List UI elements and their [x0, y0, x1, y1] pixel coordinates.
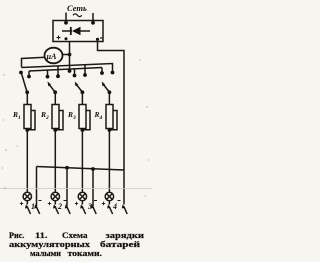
- wire R2 line2 contact stub: [47, 70, 49, 75]
- lamp HL3: [78, 192, 86, 200]
- svg-text:малыми: малыми: [30, 248, 61, 258]
- terminal arrow 4 minus: [122, 204, 128, 214]
- switch blade S2 with arrowhead: [48, 82, 56, 93]
- terminal arrow 4 plus: [107, 204, 113, 214]
- label plus terminal of rectifier: [57, 36, 61, 40]
- label plus output 4: [102, 202, 105, 205]
- label minus output 3: [94, 200, 97, 202]
- node meter stub junction: [68, 53, 72, 57]
- diode VD1 cathode line: [80, 30, 90, 32]
- wire bus line2 direct: [29, 68, 102, 72]
- paper crease line: [0, 188, 152, 190]
- wire lamp 1 tail: [26, 201, 28, 205]
- terminal arrow 1 minus: [34, 204, 40, 214]
- terminal arrow 3 minus: [91, 204, 97, 214]
- node line2 left end contact dot R1: [27, 71, 31, 78]
- svg-text:токами.: токами.: [68, 248, 103, 258]
- wire battery column 3: [81, 130, 83, 193]
- label plus output 1: [20, 202, 23, 205]
- node R2 bottom dot: [53, 128, 57, 132]
- wire minus bus: [37, 167, 125, 171]
- wire R4 top column: [108, 92, 110, 104]
- wire R3 top column: [81, 92, 83, 104]
- wire bus line1 metered: [22, 64, 113, 72]
- svg-text:2: 2: [57, 202, 62, 211]
- lamp HL1: [23, 192, 31, 200]
- wire meter right stub: [62, 54, 70, 56]
- resistor R3: [79, 105, 86, 129]
- resistor R1: [24, 105, 31, 129]
- svg-text:4: 4: [112, 202, 117, 211]
- wire R4 tap bracket: [109, 111, 117, 130]
- node S1 pivot dot: [25, 90, 29, 94]
- lamp HL4: [105, 192, 113, 200]
- node minus bus dot 3: [91, 167, 95, 171]
- wire mains stub left: [65, 13, 67, 23]
- node R2 line2 contact dot: [46, 75, 50, 79]
- diode VD1 cathode bar: [70, 27, 72, 35]
- wire R1 tap bracket: [27, 111, 35, 130]
- terminal arrow 2 plus: [53, 204, 59, 214]
- resistor R4: [106, 105, 113, 129]
- terminal arrow 3 plus: [80, 204, 86, 214]
- wire minus drop 2: [66, 168, 68, 206]
- wire battery column 1: [26, 130, 28, 193]
- svg-text:Сеть: Сеть: [67, 3, 87, 13]
- wire minus from box right: [98, 42, 125, 205]
- terminal arrow 2 minus: [65, 204, 71, 214]
- op meter uA circle: [45, 48, 63, 64]
- node line1 R4 contact dot: [111, 71, 115, 75]
- wire minus drop 3: [92, 169, 94, 206]
- label minus output 4: [118, 200, 121, 202]
- node R3 line2 contact dot: [73, 74, 77, 78]
- wire R3 tap bracket: [82, 111, 90, 130]
- label plus output 3: [75, 202, 78, 205]
- wire battery column 2: [54, 130, 56, 193]
- wire minus drop 1: [36, 167, 38, 207]
- node rectifier plus dot: [65, 37, 68, 40]
- node R2 line1 contact dot: [56, 74, 60, 78]
- node S4 pivot dot: [108, 90, 112, 94]
- node mains stub right dot: [91, 21, 95, 25]
- resistor R2: [52, 105, 59, 129]
- wire mains stub right: [92, 13, 94, 23]
- label minus output 1: [39, 200, 42, 202]
- svg-text:1: 1: [31, 202, 35, 211]
- rectifier box U1: [53, 21, 103, 42]
- svg-text:3: 3: [87, 202, 92, 211]
- node mains stub left dot: [64, 21, 68, 25]
- node R4 bottom dot: [108, 128, 112, 132]
- switch blade S4 with arrowhead: [102, 82, 110, 93]
- diode VD1 triangle: [72, 27, 81, 35]
- label minus output 2: [64, 200, 67, 202]
- wire plus output from box: [69, 42, 71, 72]
- AC tilde symbol: [73, 14, 82, 17]
- scan speckles: [2, 59, 150, 196]
- terminal arrow 1 plus: [25, 204, 31, 214]
- node R1 bottom dot: [25, 128, 29, 132]
- node rectifier minus dot: [96, 38, 99, 41]
- switch blade S1: [22, 74, 28, 93]
- node S3 pivot dot: [81, 90, 85, 94]
- wire battery column 4: [108, 130, 110, 193]
- label minus terminal of rectifier: [100, 37, 104, 39]
- node line1 R1 contact dot: [19, 71, 23, 75]
- label plus output 2: [48, 202, 51, 205]
- diode VD1 anode line: [62, 30, 72, 32]
- node plus wire on line2: [68, 69, 72, 73]
- node line2 right end contact dot R4: [100, 68, 104, 75]
- lamp HL2: [51, 192, 59, 200]
- node R3 bottom dot: [81, 128, 85, 132]
- wire R3 line1 contact stub: [84, 65, 86, 74]
- wire meter left to corner: [22, 57, 46, 67]
- wire R2 tap bracket: [55, 111, 63, 130]
- svg-text:µА: µА: [46, 52, 58, 61]
- wire lamp 3 tail: [81, 201, 83, 205]
- wire lamp 2 tail: [54, 201, 56, 205]
- wire R3 line2 contact stub: [74, 69, 76, 75]
- svg-text:батарей: батарей: [100, 239, 140, 249]
- wire R2 line1 contact stub: [57, 66, 59, 75]
- wire lamp 4 tail: [108, 201, 110, 205]
- wire R1 top column: [26, 92, 28, 104]
- wire R2 top column: [54, 92, 56, 104]
- switch blade S3 with arrowhead: [75, 82, 83, 93]
- node S2 pivot dot: [53, 90, 57, 94]
- node R3 line1 contact dot: [83, 73, 87, 77]
- node minus bus dot 2: [65, 166, 69, 170]
